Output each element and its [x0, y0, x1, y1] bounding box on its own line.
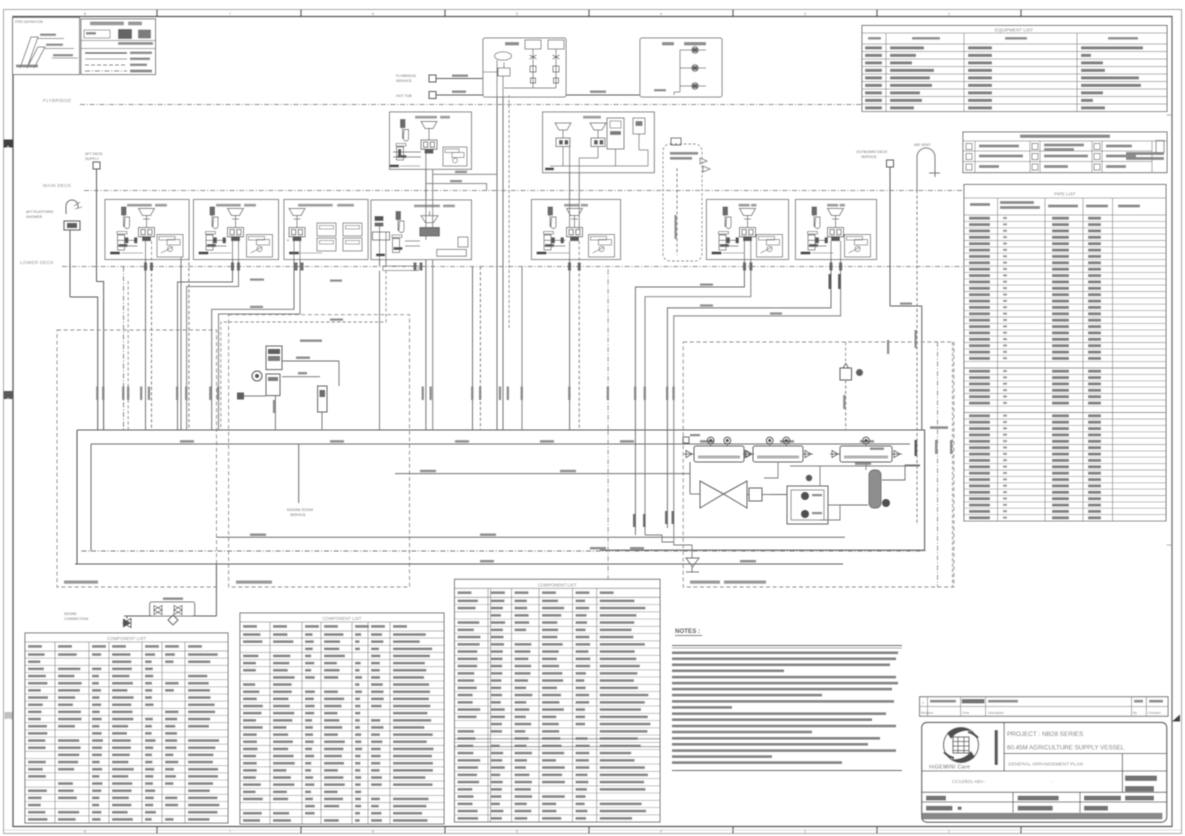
grid marker A left edge — [5, 712, 13, 719]
connector hot tub — [429, 92, 436, 99]
room box BBQ — [483, 38, 566, 97]
svg-text:SHORE: SHORE — [64, 612, 77, 616]
pipe to pumps suction — [395, 470, 690, 474]
vent line down to tanks — [915, 190, 918, 525]
room WATER BSN — [371, 200, 471, 266]
room WASH BSN 2 — [105, 200, 189, 260]
water bsn risers — [425, 236, 427, 240]
svg-text:60.45M AGRICULTURE SUPPLY VESS: 60.45M AGRICULTURE SUPPLY VESSEL — [1007, 745, 1125, 752]
risers from BBQ down to manifold — [497, 60, 509, 430]
svg-text:4: 4 — [660, 12, 662, 16]
manifold loop outer — [75, 430, 925, 564]
air vent gooseneck — [914, 143, 940, 190]
project text — [952, 731, 1125, 784]
drain funnel — [686, 558, 699, 572]
hydrophore tank — [820, 465, 920, 520]
pump suction drop pipes — [608, 430, 692, 585]
riser pair twin 1 — [570, 241, 609, 430]
svg-text:4: 4 — [660, 829, 662, 833]
right frame inner line — [1167, 17, 1172, 827]
room TWIN 1 — [532, 200, 621, 260]
connector flybridge service — [429, 75, 436, 82]
room TOILET upper deck — [543, 112, 655, 173]
deck penetration fitting water bsn — [383, 266, 418, 271]
title block outline — [922, 723, 1167, 823]
svg-text:8: 8 — [84, 12, 86, 16]
svg-text:AFT DECK: AFT DECK — [85, 152, 103, 156]
uv sterilizer unit — [770, 475, 840, 524]
label OUTBOARD DECK SERVICE — [856, 150, 888, 159]
svg-text:COMPONENT LIST: COMPONENT LIST — [323, 616, 362, 621]
svg-text:SUPPLY: SUPPLY — [85, 157, 100, 161]
svg-text:A: A — [7, 716, 10, 721]
title block divider bar — [995, 730, 998, 765]
room WASH AREA LAUNDRY — [284, 200, 368, 260]
svg-text:5: 5 — [516, 829, 518, 833]
riser pair from wc 2 jog — [667, 241, 840, 430]
svg-text:8: 8 — [84, 829, 86, 833]
svg-text:B: B — [7, 144, 10, 149]
room BAY HEAD upper deck — [390, 112, 472, 169]
toilet box risers — [570, 146, 580, 200]
svg-text:Checked: Checked — [1148, 711, 1161, 715]
grid marker B left edge — [4, 140, 14, 148]
title block cell lines — [922, 723, 1167, 813]
riser pair from wash bsn 1 jog — [178, 241, 239, 430]
svg-text:PROJECT : NB28 SERIES: PROJECT : NB28 SERIES — [1007, 731, 1083, 738]
svg-text:MAIN DECK: MAIN DECK — [43, 183, 72, 188]
connector outboard deck service — [887, 160, 894, 167]
grid marker C left edge — [4, 391, 14, 399]
svg-text:3: 3 — [804, 12, 806, 16]
labels along manifold — [180, 440, 874, 442]
compartment box TANK ROOM dashed — [229, 315, 410, 587]
manifold loop inner — [82, 444, 927, 551]
svg-text:Revision: Revision — [921, 711, 933, 715]
svg-text:OUTBOARD DECK: OUTBOARD DECK — [856, 150, 888, 154]
pipe hot tub line — [436, 91, 674, 96]
revision table — [920, 697, 1168, 716]
riser pair galley — [473, 267, 523, 431]
aft platform shower — [26, 200, 98, 430]
svg-text:5: 5 — [516, 12, 518, 16]
deck line MAIN DECK — [43, 183, 1167, 191]
fitting near pump 1 — [683, 434, 700, 443]
svg-text:7: 7 — [229, 829, 231, 833]
svg-text:SERVICE: SERVICE — [290, 513, 306, 517]
riser pair wash bsn 2 shower — [181, 257, 189, 430]
aft deck supply connector — [93, 162, 104, 430]
hot water heater — [840, 342, 863, 430]
svg-text:7: 7 — [229, 12, 231, 16]
svg-text:NOTES :: NOTES : — [675, 628, 700, 635]
legend box: line type table — [81, 19, 156, 75]
riser pair from laundry jog — [212, 241, 300, 430]
pump group 2 fresh water — [743, 437, 813, 462]
riser pair from wc 1 jog — [635, 241, 750, 430]
legend box: pipe definition — [13, 18, 80, 75]
room box WHEEL HOUSE — [640, 38, 722, 97]
svg-text:6: 6 — [372, 12, 374, 16]
pipe outboard service drop — [887, 167, 922, 430]
riser overlays inside rooms — [426, 200, 579, 231]
bay head risers down through water bsn — [426, 154, 497, 430]
svg-text:CONNECTION: CONNECTION — [64, 617, 89, 621]
border fold ticks top — [84, 10, 1021, 17]
label AFT DECK SUPPLY — [85, 152, 103, 161]
company logo — [929, 728, 979, 771]
pump group 3 hot water circ — [830, 437, 902, 462]
description of symbols table — [963, 132, 1167, 173]
right side vent risers dashed — [935, 342, 953, 587]
border fold ticks bottom — [4, 827, 1182, 834]
svg-text:1: 1 — [922, 701, 924, 705]
svg-text:LOWER DECK: LOWER DECK — [20, 260, 55, 265]
svg-text:SHOWER: SHOWER — [26, 215, 43, 219]
riser dash-dot tank line left — [124, 267, 129, 431]
pipe flybridge service to BBQ — [436, 60, 497, 79]
compartment box FRESH WATER dashed — [683, 342, 954, 587]
pipe list table — [964, 185, 1166, 522]
notes text block — [672, 646, 902, 771]
svg-text:6: 6 — [372, 829, 374, 833]
svg-text:FLYBRIDGE: FLYBRIDGE — [43, 98, 71, 103]
svg-text:PIPE LIST: PIPE LIST — [1054, 192, 1076, 197]
svg-text:By: By — [1133, 711, 1137, 715]
svg-text:COMPONENT LIST: COMPONENT LIST — [538, 582, 577, 587]
notes heading — [675, 628, 702, 636]
compartment box SALOON dashed — [57, 330, 217, 587]
grid marker right edge — [1172, 715, 1180, 722]
room WASH BSN 1 — [194, 200, 279, 260]
svg-text:AIR VENT: AIR VENT — [914, 143, 931, 147]
svg-text:3: 3 — [804, 829, 806, 833]
svg-text:SERVICE: SERVICE — [861, 155, 877, 159]
riser fitting blobs below rooms — [144, 263, 842, 271]
svg-text:AFT PLATFORM: AFT PLATFORM — [26, 210, 53, 214]
water maker unit — [237, 340, 339, 431]
pump group 1 fresh water — [684, 437, 754, 462]
label HOT TUB — [396, 94, 412, 98]
svg-text:Description: Description — [988, 711, 1004, 715]
equipment list table — [862, 26, 1167, 112]
shore connection — [64, 564, 216, 628]
title block grey bars — [923, 776, 1163, 822]
svg-text:PIPE DEFINITION: PIPE DEFINITION — [15, 20, 43, 24]
engine room service drop — [287, 444, 313, 517]
riser labels band — [96, 387, 675, 401]
svg-text:HOT TUB: HOT TUB — [396, 94, 412, 98]
svg-text:FLYBRIDGE: FLYBRIDGE — [396, 74, 417, 78]
misc pipe labels on jogs — [250, 171, 912, 321]
svg-text:EQUIPMENT LIST: EQUIPMENT LIST — [995, 28, 1033, 33]
svg-text:GENERAL ARRANGEMENT PLAN: GENERAL ARRANGEMENT PLAN — [1008, 762, 1083, 768]
pumps interconnect piping — [690, 426, 948, 494]
room WC 1 — [707, 200, 789, 260]
svg-text:COMPONENT LIST: COMPONENT LIST — [107, 636, 146, 641]
deck flush dashed box — [663, 138, 710, 261]
svg-text:HiGEMINI Care: HiGEMINI Care — [929, 765, 970, 771]
component list table middle — [455, 579, 661, 822]
riser hot water dashed jog from water bsn — [221, 271, 386, 431]
valve square after strainer — [747, 488, 770, 501]
strainer bowtie — [690, 481, 747, 508]
svg-text:C: C — [7, 396, 10, 401]
label FLYBRIDGE SERVICE — [396, 74, 417, 83]
deck line FLYBRIDGE — [43, 98, 1167, 105]
component list table middle-left — [240, 613, 444, 824]
svg-text:2: 2 — [948, 829, 950, 833]
svg-text:Zone: Zone — [962, 711, 969, 715]
svg-text:2: 2 — [948, 12, 950, 16]
riser pair wash bsn 2 mixer — [146, 241, 152, 430]
manifold mid pipe — [216, 534, 845, 563]
room WC 2 — [796, 200, 877, 260]
deck line LOWER DECK — [20, 260, 1167, 267]
svg-text:ENGINE ROOM: ENGINE ROOM — [287, 508, 313, 512]
svg-text:CC12/921-ABA -: CC12/921-ABA - — [952, 779, 986, 784]
svg-text:SERVICE: SERVICE — [396, 79, 412, 83]
component list table left — [25, 633, 228, 823]
